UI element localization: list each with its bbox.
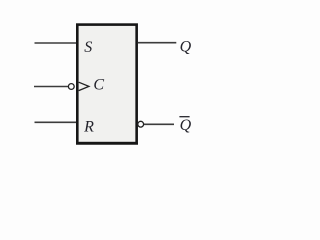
inversion bubble on Q-bar output [138, 121, 144, 127]
wire S input [35, 42, 77, 44]
bottom edge extra thickness [76, 143, 138, 145]
wire C input [34, 86, 68, 88]
dynamic input indicator (edge-trigger triangle) at C [79, 82, 89, 90]
wire Q output [138, 42, 177, 44]
svg-text:R: R [83, 118, 94, 135]
svg-text:C: C [93, 77, 104, 94]
inversion bubble on clock input C [68, 84, 74, 90]
overline of Q-bar [179, 116, 189, 118]
svg-text:Q: Q [180, 38, 192, 55]
flip-flop body U1 (S-R flip-flop rectangle) [77, 25, 136, 144]
wire Q-bar output [144, 123, 174, 125]
svg-text:S: S [84, 39, 92, 56]
wire R input [35, 121, 77, 123]
svg-text:Q: Q [180, 117, 192, 134]
